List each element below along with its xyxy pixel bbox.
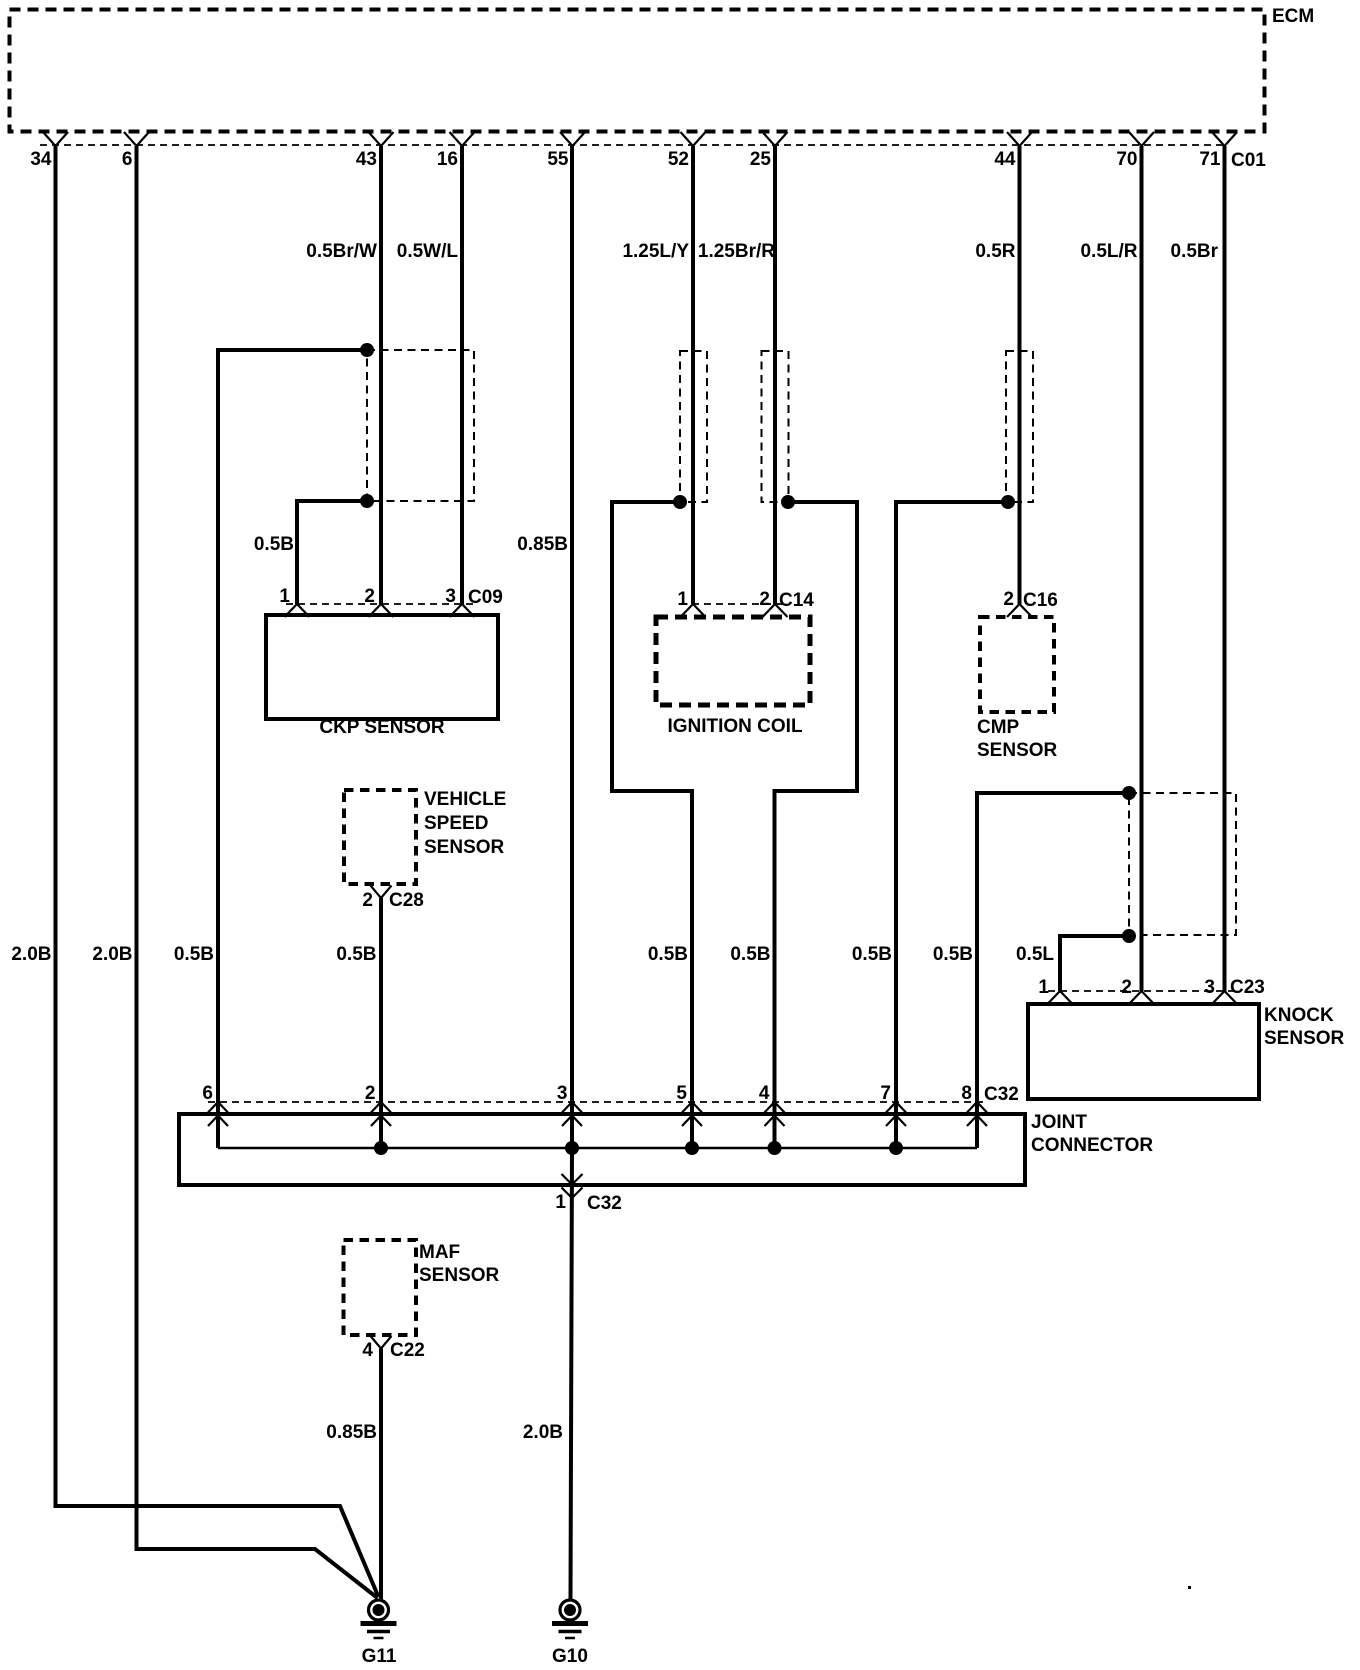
svg-text:0.5Br/W: 0.5Br/W (306, 241, 377, 262)
svg-text:C16: C16 (1023, 590, 1058, 611)
svg-text:1: 1 (279, 586, 290, 607)
junction node ignition coil left (673, 495, 687, 509)
svg-text:C09: C09 (468, 587, 503, 608)
svg-text:3: 3 (557, 1083, 568, 1104)
svg-text:SENSOR: SENSOR (419, 1265, 500, 1286)
wire CMP sensor branch to joint connector pin7 (852, 502, 1008, 1148)
wire 0.5W/L pin16 to CKP sensor pin3 (397, 146, 462, 604)
pin 3 of C32 (557, 1083, 582, 1126)
joint connector internal bus (218, 1147, 977, 1150)
wire 0.5R pin44 to CMP sensor pin2 (975, 146, 1019, 604)
wire 0.5Br pin71 to knock sensor pin3 (1170, 146, 1224, 991)
pin 34 of C01 (30, 132, 68, 170)
knock sensor box (1028, 1004, 1345, 1099)
pin 1 of C09 (279, 586, 309, 617)
pin 43 of C01 (356, 132, 394, 170)
pin 3 of C23 (1204, 977, 1237, 1004)
svg-text:55: 55 (547, 149, 569, 170)
svg-text:G11: G11 (362, 1646, 397, 1667)
wire ignition coil left branch to joint connector pin5 (612, 502, 692, 1148)
pin 7 of C32 (880, 1083, 906, 1126)
svg-text:1: 1 (555, 1192, 566, 1213)
svg-text:0.5L/R: 0.5L/R (1080, 241, 1137, 262)
pin 2 of C23 (1121, 977, 1154, 1004)
pin 5 of C32 (676, 1083, 702, 1126)
svg-text:1: 1 (1038, 977, 1049, 998)
svg-text:3: 3 (1204, 977, 1215, 998)
junction node bus pin5 (685, 1141, 699, 1155)
svg-text:1.25L/Y: 1.25L/Y (622, 241, 689, 262)
pin 4 of C22 MAF sensor (362, 1336, 424, 1361)
pin 4 of C32 (759, 1083, 785, 1126)
svg-text:8: 8 (961, 1083, 972, 1104)
wire pin6 to ground G11 2.0B (92, 146, 377, 1598)
pin 16 of C01 (437, 132, 475, 170)
svg-text:G10: G10 (552, 1646, 588, 1667)
pin 1 of C23 (1038, 977, 1072, 1004)
pin 70 of C01 (1116, 132, 1154, 170)
svg-text:4: 4 (362, 1340, 373, 1361)
svg-text:0.5B: 0.5B (174, 944, 214, 965)
svg-text:2.0B: 2.0B (523, 1422, 563, 1443)
pin 52 of C01 (668, 132, 706, 170)
junction node knock branch bottom (1122, 929, 1136, 943)
ground G11 (361, 1600, 397, 1667)
MAF sensor dashed box (344, 1240, 500, 1335)
wire 0.5Br/W pin43 to CKP sensor pin2 (306, 146, 381, 604)
pin 3 of C09 (445, 586, 474, 617)
svg-text:52: 52 (668, 149, 689, 170)
CMP sensor dashed box (977, 617, 1058, 761)
svg-text:0.5B: 0.5B (852, 944, 892, 965)
ground G10 (552, 1600, 588, 1667)
svg-text:KNOCK: KNOCK (1264, 1005, 1334, 1026)
pin 1 of C14 (677, 589, 705, 617)
wire 0.5B VSS to joint connector pin2 (336, 898, 381, 1148)
pin 1 of C32 output (555, 1174, 621, 1214)
svg-text:SENSOR: SENSOR (424, 837, 505, 858)
pin 2 of C32 (365, 1083, 391, 1126)
pin 44 of C01 (994, 132, 1032, 170)
svg-text:2: 2 (759, 589, 770, 610)
svg-text:C23: C23 (1230, 977, 1265, 998)
svg-text:2.0B: 2.0B (11, 944, 51, 965)
svg-text:0.5L: 0.5L (1016, 944, 1054, 965)
joint connector box (179, 1112, 1153, 1185)
svg-text:C14: C14 (779, 590, 814, 611)
svg-text:SENSOR: SENSOR (977, 740, 1058, 761)
svg-text:0.5Br: 0.5Br (1170, 241, 1218, 262)
svg-text:0.85B: 0.85B (517, 534, 568, 555)
svg-text:2: 2 (1121, 977, 1132, 998)
svg-text:C01: C01 (1231, 150, 1266, 171)
svg-text:C22: C22 (390, 1340, 425, 1361)
connector C09 line (286, 587, 503, 608)
pin 2 of C14 (759, 589, 787, 617)
svg-text:2: 2 (1003, 589, 1014, 610)
in-line connector dashed box (wires 43,16) (367, 350, 474, 501)
junction node bus pin4 (768, 1141, 782, 1155)
svg-text:1: 1 (677, 589, 688, 610)
pin 2 of C16 CMP sensor (1003, 589, 1057, 617)
svg-text:SPEED: SPEED (424, 813, 488, 834)
ignition coil dashed box (656, 617, 810, 737)
pin 6 of C01 (122, 132, 149, 170)
pin 6 of C32 (202, 1083, 228, 1126)
svg-text:0.5B: 0.5B (933, 944, 973, 965)
svg-text:0.5B: 0.5B (254, 534, 294, 555)
ECM module box (10, 6, 1315, 132)
CKP sensor box (266, 615, 498, 738)
pin 2 of C09 (364, 586, 393, 617)
svg-text:0.5W/L: 0.5W/L (397, 241, 459, 262)
pin 8 of C32 (961, 1083, 987, 1126)
svg-text:ECM: ECM (1272, 6, 1314, 27)
svg-text:16: 16 (437, 149, 458, 170)
wire CKP sensor branch to joint connector pin6 (174, 350, 367, 1148)
svg-text:C32: C32 (984, 1084, 1019, 1105)
svg-text:44: 44 (994, 149, 1016, 170)
vehicle speed sensor dashed box (344, 789, 506, 884)
svg-text:0.5B: 0.5B (730, 944, 770, 965)
svg-text:5: 5 (676, 1083, 687, 1104)
svg-text:43: 43 (356, 149, 377, 170)
svg-text:6: 6 (122, 149, 133, 170)
junction node ignition coil right (781, 495, 795, 509)
pin 25 of C01 (750, 132, 788, 170)
svg-text:1.25Br/R: 1.25Br/R (698, 241, 775, 262)
connector C32 line (208, 1084, 1019, 1105)
pin 71 of C01 (1199, 132, 1237, 170)
svg-text:34: 34 (30, 149, 52, 170)
in-line connector dashed box (wires 70,71) (1129, 793, 1236, 935)
wire pin34 to ground G11 2.0B (11, 146, 378, 1597)
connector C01 line (40, 145, 1266, 171)
svg-text:3: 3 (445, 586, 456, 607)
svg-text:2.0B: 2.0B (92, 944, 132, 965)
junction node bus pin2 (374, 1141, 388, 1155)
svg-text:C28: C28 (389, 890, 424, 911)
svg-text:0.5B: 0.5B (648, 944, 688, 965)
svg-text:MAF: MAF (419, 1242, 460, 1263)
in-line connector dashed box (wire 44) (1006, 351, 1033, 502)
svg-text:0.85B: 0.85B (326, 1422, 377, 1443)
svg-text:IGNITION COIL: IGNITION COIL (667, 716, 803, 737)
in-line connector dashed box (wire 25) (762, 351, 789, 502)
svg-text:VEHICLE: VEHICLE (424, 789, 506, 810)
wire 0.85B pin55 to joint connector pin3 (517, 146, 572, 1148)
svg-text:0.5B: 0.5B (336, 944, 376, 965)
wire 0.5L to knock sensor pin1 (1016, 936, 1129, 991)
pin 55 of C01 (547, 132, 585, 170)
svg-text:0.5R: 0.5R (975, 241, 1015, 262)
junction node on connector box top (360, 343, 374, 357)
svg-text:2: 2 (365, 1083, 376, 1104)
svg-text:SENSOR: SENSOR (1264, 1028, 1345, 1049)
pin 2 of C26 vehicle speed sensor (362, 886, 423, 912)
wire 0.85B MAF sensor to ground G11 (326, 1349, 381, 1600)
svg-text:JOINT: JOINT (1031, 1112, 1087, 1133)
junction node CMP branch (1001, 495, 1015, 509)
wire 0.5L/R pin70 to knock sensor pin2 (1080, 146, 1141, 991)
wire 1.25L/Y pin52 to ignition coil pin1 (622, 146, 693, 604)
svg-text:C32: C32 (587, 1193, 622, 1214)
svg-text:CMP: CMP (977, 717, 1020, 738)
wire 0.5B to CKP sensor pin1 (254, 501, 367, 604)
junction node bus pin3 (565, 1141, 579, 1155)
junction node bus pin7 (889, 1141, 903, 1155)
svg-text:6: 6 (202, 1083, 213, 1104)
wire 2.0B joint connector pin1 to ground G10 (523, 1148, 572, 1599)
svg-text:70: 70 (1116, 149, 1137, 170)
svg-text:CKP SENSOR: CKP SENSOR (319, 717, 445, 738)
wire knock sensor branch to joint connector pin8 (933, 793, 1129, 1148)
svg-text:7: 7 (880, 1083, 891, 1104)
wire 1.25Br/R pin25 to ignition coil pin2 (698, 146, 775, 604)
connector C23 line (1048, 977, 1265, 998)
svg-text:71: 71 (1199, 149, 1221, 170)
svg-text:25: 25 (750, 149, 772, 170)
svg-text:4: 4 (759, 1083, 770, 1104)
in-line connector dashed box (wire 52) (680, 351, 707, 502)
svg-text:2: 2 (364, 586, 375, 607)
svg-text:2: 2 (362, 890, 373, 911)
junction node on connector box bottom (360, 494, 374, 508)
junction node knock branch top (1122, 786, 1136, 800)
connector C14 line (680, 590, 814, 611)
wire ignition coil right branch to joint connector pin4 (730, 502, 857, 1148)
svg-text:CONNECTOR: CONNECTOR (1031, 1135, 1153, 1156)
